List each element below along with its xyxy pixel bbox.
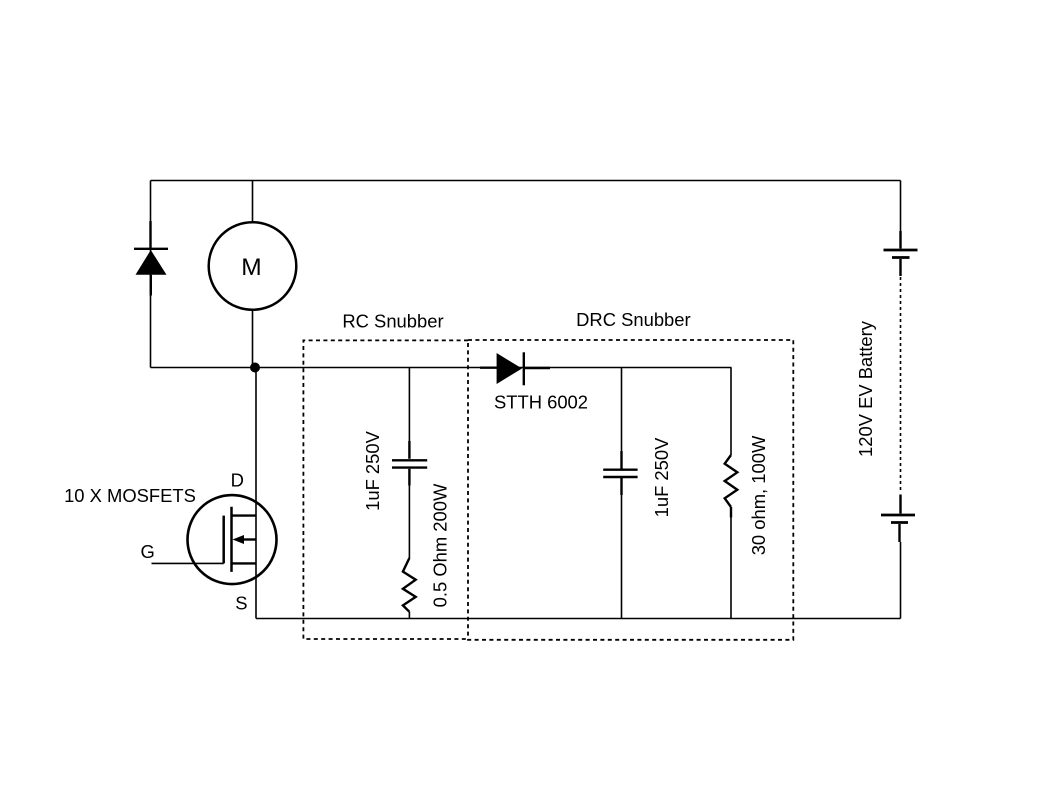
- svg-text:30 ohm, 100W: 30 ohm, 100W: [748, 435, 769, 555]
- svg-text:G: G: [141, 541, 155, 562]
- svg-text:D: D: [231, 470, 244, 491]
- svg-text:RC Snubber: RC Snubber: [342, 311, 443, 332]
- svg-text:STTH 6002: STTH 6002: [494, 391, 588, 412]
- svg-text:S: S: [235, 592, 247, 613]
- svg-text:M: M: [241, 254, 261, 281]
- svg-text:DRC Snubber: DRC Snubber: [576, 309, 690, 330]
- svg-text:1uF 250V: 1uF 250V: [651, 437, 672, 517]
- svg-text:0.5 Ohm 200W: 0.5 Ohm 200W: [429, 483, 450, 607]
- svg-text:120V EV Battery: 120V EV Battery: [855, 320, 876, 457]
- svg-text:1uF 250V: 1uF 250V: [362, 430, 383, 510]
- svg-text:10 X MOSFETS: 10 X MOSFETS: [64, 485, 196, 506]
